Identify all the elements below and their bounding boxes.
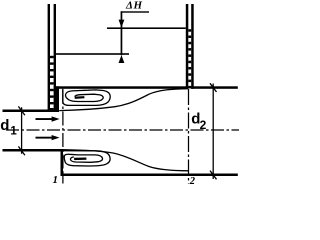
section line 1 (dash-dot) — [62, 90, 64, 184]
svg-text:1: 1 — [10, 125, 17, 137]
liquid column hatching in tube T2 — [188, 29, 191, 88]
flow arrow lower head — [52, 135, 60, 140]
bottom jet boundary streamline — [63, 150, 189, 171]
water level line of tube T2 — [107, 27, 186, 29]
flow arrow lower stem — [36, 137, 54, 139]
centerline axis (dash-dot) — [6, 129, 239, 131]
svg-text:1: 1 — [53, 174, 59, 186]
top vortex core dash — [75, 96, 85, 99]
water level line of tube T1 — [56, 53, 129, 55]
d2 bottom oblique tick — [210, 171, 217, 180]
d1 dimension line — [21, 107, 23, 154]
svg-text:2: 2 — [189, 176, 196, 187]
liquid column hatching in tube T1 — [50, 56, 54, 110]
piezometer tube T1 left wall — [48, 4, 50, 112]
d1 top oblique tick — [18, 106, 25, 115]
pipe top wall — [3, 110, 60, 113]
expansion step wall bottom — [61, 149, 64, 176]
svg-text:d: d — [0, 117, 9, 134]
channel top wall right segment — [191, 86, 238, 89]
d2 dimension line — [212, 84, 214, 180]
flow arrow upper head — [52, 116, 60, 121]
section line 2 (dash-dot) — [188, 89, 190, 184]
channel top wall left segment — [56, 86, 188, 89]
delta-H leader line — [121, 11, 149, 12]
top vortex spiral — [63, 89, 110, 106]
channel bottom wall — [61, 174, 238, 177]
delta-H arrowhead down — [119, 20, 125, 28]
piezometer tube T2 right wall — [191, 4, 194, 89]
top jet boundary streamline — [59, 89, 188, 111]
delta-H dimension line — [121, 11, 123, 55]
d2 top oblique tick — [210, 83, 217, 92]
d1 bottom oblique tick — [18, 146, 25, 155]
bottom vortex core dash — [74, 158, 87, 161]
expansion step wall top — [56, 86, 59, 112]
flow arrow upper stem — [36, 118, 54, 120]
piezometer tube T1 right wall — [54, 4, 56, 112]
svg-text:ΔH: ΔH — [125, 0, 143, 12]
bottom vortex spiral — [63, 151, 110, 166]
delta-H arrowhead up — [119, 55, 125, 63]
pipe bottom wall — [3, 149, 64, 152]
piezometer tube T2 left wall — [186, 4, 189, 89]
